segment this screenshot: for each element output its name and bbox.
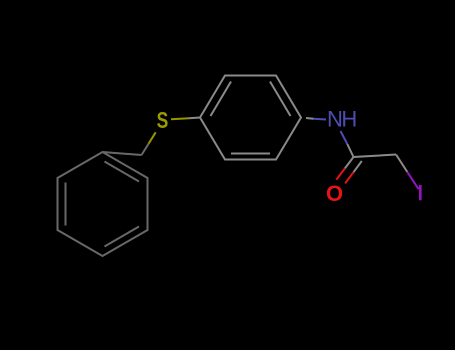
- bond N-C(=O) nitrogen half: [341, 131, 348, 144]
- bond S-CH2 sulfur half: [149, 132, 156, 143]
- bond C=O main line gray half: [345, 157, 354, 168]
- bond C=O inner line oxygen half: [345, 172, 353, 183]
- inner double-bond line C3-C4: [105, 227, 140, 247]
- bond S-ring gray half: [189, 117, 200, 120]
- svg-text:NH: NH: [327, 107, 356, 132]
- inner double-bond line upper-right edge: [270, 82, 291, 117]
- bond CH2-I iodine half: [407, 172, 418, 189]
- benzene ring left (benzyl): [58, 152, 148, 256]
- bond N-C(=O) gray half: [347, 144, 353, 157]
- svg-text:S: S: [157, 109, 169, 134]
- bond C=O inner line gray half: [354, 161, 362, 172]
- bond S-CH2 gray half: [142, 144, 149, 155]
- inner double-bond line C5-C6: [65, 183, 67, 226]
- bond ring-N gray half: [306, 117, 314, 120]
- wire C(=O)-CH2: [354, 155, 397, 158]
- inner double-bond line bottom edge: [231, 153, 270, 155]
- atom I: [419, 185, 422, 200]
- wire CH2-C1 (benzyl methylene to ring): [103, 152, 142, 155]
- benzene ring central: [200, 76, 301, 160]
- svg-text:O: O: [326, 181, 343, 206]
- bond C=O main line oxygen half: [336, 168, 345, 179]
- bond S-ring sulfur half: [171, 118, 189, 119]
- inner double-bond line C1-C2: [105, 162, 140, 182]
- bond CH2-I gray half: [396, 155, 407, 172]
- bond ring-N nitrogen half: [314, 118, 327, 121]
- inner double-bond line upper-left edge: [211, 82, 232, 117]
